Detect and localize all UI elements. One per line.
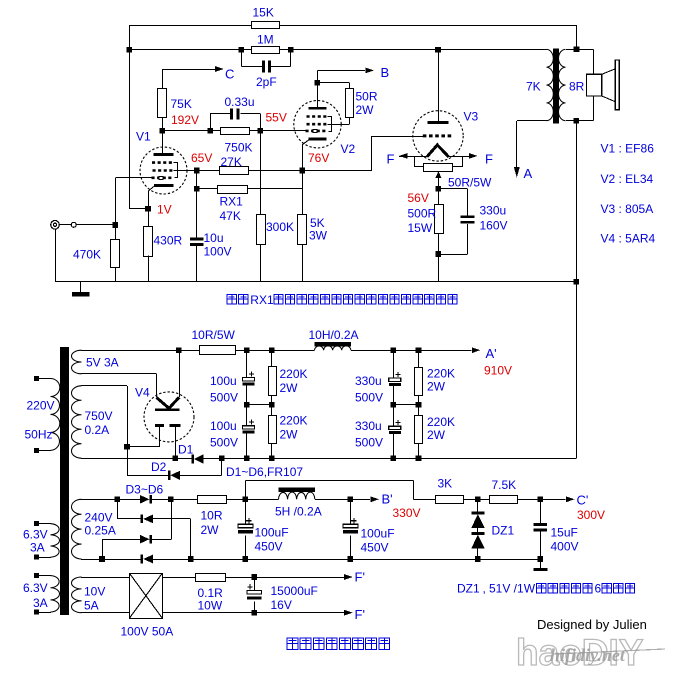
tube V2 grid3 [307,115,328,118]
wire 7.5K to C-prime [518,499,566,501]
svg-text:220K: 220K [280,414,308,428]
tube V1 cathode [154,184,174,187]
resistor 10R/5W [200,346,236,355]
node 2pF-right junction [288,47,294,53]
svg-text:8R: 8R [569,80,585,94]
tube V2 g3-g1 tie [328,117,332,132]
wire 5K to ground [302,244,304,282]
transformer PT 5V 3A winding [72,350,82,374]
svg-text:220K: 220K [280,367,308,381]
input jack J1 [51,221,60,230]
wire 5K drop [302,171,304,215]
wire res1 link [271,396,273,416]
node V4 filament junction [176,347,182,353]
svg-text:2W: 2W [201,523,220,537]
svg-text:6.3V: 6.3V [23,581,48,595]
svg-text:B': B' [382,492,393,507]
wire res2 link [418,396,420,416]
wire to F-prime top [225,577,344,579]
node res2 mid junction [416,402,422,408]
wire filament F right [449,156,471,158]
node secondary top junction [574,47,580,53]
wire caps-res link1 [247,404,272,406]
wire bias bottom rail [153,559,541,561]
wire feedback left vertical [129,25,131,209]
wire 430R to ground [148,256,150,282]
svg-text:1M: 1M [257,33,274,47]
transformer PT core [60,347,69,615]
wire test point C [162,69,164,89]
svg-text:75K: 75K [171,97,192,111]
node bias rail cap2 [348,556,354,562]
wire bridge row1 right [152,499,198,501]
svg-text:V2: V2 [341,142,356,156]
rectifier bridge 100V 50A [130,574,163,619]
diode D3 [140,495,150,504]
node V3 plate junction [435,47,441,53]
resistor 750K [221,128,250,135]
wire DZ1 bottom lead [477,548,479,559]
svg-text:15uF: 15uF [551,526,578,540]
resistor 3K [436,496,464,504]
svg-text:51V /1W: 51V /1W [489,582,536,596]
wire cathode rail to V3 grid [302,170,372,172]
tube V2 plate [309,107,327,110]
tube V2 grid2 [307,123,328,126]
node 1M-left junction [126,47,132,53]
wire bias rail to B-prime [315,499,370,501]
wire regulator feed [245,480,247,499]
tube V4 5AR4 envelope [144,392,194,442]
wire main ground rail [55,281,576,283]
svg-text:3A: 3A [30,541,45,555]
wire test point B [317,70,319,82]
node bridge row4 left [99,556,105,562]
svg-text:50Hz: 50Hz [25,428,53,442]
svg-text:100uF: 100uF [255,526,289,540]
wire 330u branch [438,188,467,190]
terminal 6.3V-2 bottom [34,610,39,615]
wire 470K to ground [115,268,117,282]
note mono design (chinese) [287,638,298,649]
tube V4 right plate [170,424,181,427]
tube V4 cathode bar [155,409,180,412]
terminal 6.3V-2 top [34,573,39,578]
node 15uF top junction [538,497,544,503]
wire to 500R [438,189,440,205]
svg-text:RX1: RX1 [250,293,274,307]
svg-text:330u: 330u [355,374,382,388]
svg-text:D1~D6,FR107: D1~D6,FR107 [226,465,303,479]
tube V4 filament [157,397,180,408]
svg-text:A: A [524,166,533,181]
transformer PT 220V primary [51,379,60,451]
wire 240V bottom rail [81,559,141,561]
resistor 5K 3W [298,215,307,245]
svg-text:A': A' [486,346,497,361]
svg-text:100V 50A: 100V 50A [121,625,174,639]
resistor 220K 2W third [418,350,420,367]
svg-text:5A: 5A [84,599,99,613]
terminal 220V bottom [34,448,39,453]
tube V2 EL34 envelope [294,101,341,148]
node neg rail cap1 [244,455,250,461]
capacitor 100u 500V upper [246,350,248,377]
svg-text:D1: D1 [178,443,194,457]
zener DZ1 lower [471,532,484,535]
wire cathode to 430R [148,209,150,226]
wire 240V top to bridge [81,499,140,501]
wire bridge to 0.1R [162,577,196,579]
svg-text:192V: 192V [171,113,199,127]
svg-text:5V 3A: 5V 3A [86,356,119,370]
wire bridge row2 right [153,518,191,520]
svg-text:500V: 500V [355,436,383,450]
wire zener link [477,528,479,532]
wire 10V top lead [81,577,129,579]
node V4 right plate junction [172,455,178,461]
wire RX1 rail [197,188,218,190]
node res1 mid junction [269,402,275,408]
transformer PT 6.3V winding 2 [51,576,60,612]
svg-text:27K: 27K [221,155,242,169]
wire terminal to grid node [76,224,115,226]
wire filament F left [399,156,427,158]
wire 750V top to plate node [81,385,127,387]
wire 15K feedback rail top [129,25,251,27]
capacitor 330u 160V [461,215,475,218]
svg-text:B: B [381,65,390,80]
node 15000uF top junction [251,574,257,580]
ground symbol bias rail [540,559,542,568]
node X junction [219,455,225,461]
node cap2 mid junction [391,402,397,408]
wire res2 bottom [418,444,420,459]
node cap1 top junction [244,347,250,353]
capacitor 330u 500V lower [389,426,401,429]
tube V2 grid1 [306,130,328,133]
wire plate to 50R [317,82,349,84]
svg-text:F': F' [355,607,365,622]
svg-text:2W: 2W [356,103,375,117]
resistor 50R/5W humdinger [424,164,453,172]
svg-text:1V: 1V [157,203,172,217]
wire caps-res link2 [393,404,418,406]
wire 2pF branch [241,50,243,67]
wire 750V bottom to D1 [81,458,192,460]
svg-text:Designed by Julien: Designed by Julien [537,617,647,632]
transformer PT 6.3V winding 1 [51,524,60,557]
wire bridge row2 left [117,518,141,520]
svg-text:450V: 450V [255,540,283,554]
node cap2 top junction [391,347,397,353]
svg-text:220K: 220K [427,367,455,381]
transformer PT 750V winding [71,386,81,458]
terminal 220V top [34,376,39,381]
svg-text:470K: 470K [73,248,101,262]
wire input node vertical [115,178,117,239]
diode D5 [140,535,150,544]
wire secondary top [566,49,594,51]
node 750K-left junction [207,128,213,134]
wire 1M rail [129,49,251,51]
svg-text:6.3V: 6.3V [23,528,48,542]
resistor 1M [252,47,280,54]
terminal open circle [71,222,76,227]
node neg rail cap2 [391,455,397,461]
node bridge row1 left [114,497,120,503]
wire negative return rail [222,458,577,460]
svg-text:500V: 500V [210,436,238,450]
svg-text:2W: 2W [427,428,446,442]
wire V1 g2 out [174,170,197,172]
zener DZ1 upper [471,512,484,515]
wire feedback to cathode [129,208,148,210]
wire 27K rail [197,170,219,172]
tube V1 g3-g1 tie [174,163,178,178]
transformer PT 10V 5A winding [71,577,81,613]
wire 75K to plate node [162,118,164,131]
svg-text:10H/0.2A: 10H/0.2A [309,328,359,342]
resistor 430R [144,227,153,257]
svg-text:160V: 160V [480,219,508,233]
svg-text:3A: 3A [33,596,48,610]
wire B+ rail mid [236,350,315,352]
wire V1 plate lead [162,131,164,154]
tube V2 cathode [309,138,327,141]
svg-text:76V: 76V [308,151,329,165]
svg-text:65V: 65V [191,151,212,165]
svg-text:400V: 400V [551,540,579,554]
resistor RX1 47K [218,186,248,194]
svg-text:10u: 10u [204,231,224,245]
svg-text:V1: V1 [136,130,151,144]
svg-text:D2: D2 [151,460,167,474]
svg-text:,: , [483,582,486,596]
svg-text:RX1: RX1 [220,195,244,209]
wire V4 left plate lead [159,427,161,447]
wire bridge left vertical [117,499,119,519]
resistor 300K [257,215,266,245]
svg-text:15W: 15W [408,221,433,235]
node V2 plate junction [315,80,321,86]
svg-text:430R: 430R [154,234,183,248]
resistor 220K 2W second [269,416,277,444]
svg-text:100V: 100V [204,245,232,259]
svg-text:10W: 10W [198,599,223,613]
svg-text:100u: 100u [210,374,237,388]
svg-text:V3 : 805A: V3 : 805A [601,202,654,216]
wire V4 right filament lead [179,350,181,397]
wire 10V bottom rail [81,612,129,614]
wire 500R bottom [438,234,440,255]
node 500R bottom junction [436,251,442,257]
wire humdinger wiper [438,172,440,189]
tube V1 grid1 [152,177,174,180]
node cap1 mid junction [244,402,250,408]
node cathode junction [145,206,151,212]
wire humdinger right wing [453,157,463,167]
svg-text:500V: 500V [210,391,238,405]
svg-text:300V: 300V [577,508,605,522]
svg-text:hifidiy.net: hifidiy.net [550,645,626,665]
svg-text:C: C [225,67,234,82]
tube V1 grid2 [153,169,174,172]
node res2 top junction [416,347,422,353]
svg-text:DZ1: DZ1 [457,582,480,596]
choke 10H/0.2A [315,342,351,347]
capacitor 100uF 450V second [350,499,352,524]
svg-text:220K: 220K [427,415,455,429]
svg-text:300K: 300K [266,220,294,234]
wire D1 to node X [204,458,222,460]
svg-text:0.33u: 0.33u [225,95,255,109]
wire cathode node to ground [438,254,440,282]
wire bias cap2 bottom [350,536,352,559]
terminal 6.3V-1 top [34,521,39,526]
svg-text:10V: 10V [84,585,105,599]
svg-text:2W: 2W [280,381,299,395]
wire V2 plate lead [317,83,319,107]
transformer OPT secondary 8R [558,49,565,120]
svg-text:500V: 500V [355,391,383,405]
svg-text:DZ1: DZ1 [492,524,515,538]
svg-text:56V: 56V [408,191,429,205]
resistor 220K 2W first [271,350,273,367]
svg-text:10R: 10R [201,509,223,523]
wire V4 right plate lead [175,427,177,458]
svg-text:220V: 220V [27,399,55,413]
node DZ1 top junction [475,497,481,503]
resistor 500R 15W [435,205,444,234]
node secondary bottom junction [574,118,580,124]
svg-text:2W: 2W [280,428,299,442]
wire V1 cathode lead [148,186,154,191]
wire secondary to ground rail [576,121,578,459]
svg-text:500R: 500R [408,207,437,221]
svg-text:V4: V4 [135,386,150,400]
wire V2 cathode lead [303,140,309,145]
resistor 7.5K [490,496,518,504]
wire g2 vertical [196,171,198,238]
resistor 15K [252,22,280,29]
wire V3 plate lead [438,50,440,121]
note adjust RX1 (chinese) [227,295,236,305]
svg-text:F': F' [355,570,365,585]
node neg rail res1 [269,455,275,461]
svg-text:330u: 330u [355,419,382,433]
svg-text:15000uF: 15000uF [271,584,318,598]
wire V1 g1 to input node [115,177,151,179]
svg-text:910V: 910V [484,364,512,378]
tube V4 left plate [155,424,164,427]
capacitor 0.33u [210,114,212,131]
capacitor 10u 100V [190,238,204,241]
svg-text:F: F [485,152,493,167]
tube V3 filament [427,145,449,157]
capacitor 15000uF 16V [254,577,256,591]
wire cap2 bottom [393,434,395,458]
capacitor 2pF [262,61,265,73]
wire 15000uF bottom lead [254,602,256,613]
svg-text:50R: 50R [356,90,378,104]
svg-text:V4 : 5AR4: V4 : 5AR4 [601,231,656,245]
choke 5H/0.2A [279,487,315,492]
node 750K-right junction [258,128,264,134]
tube V3 plate [428,121,449,124]
wire humdinger left wing [415,157,424,167]
svg-text:V3: V3 [464,110,479,124]
transformer PT 240V winding [71,499,81,559]
transformer OPT core [553,49,559,124]
resistor 0.1R 10W [196,574,226,582]
svg-text:100u: 100u [210,419,237,433]
tube V1 EF86 envelope [140,147,187,194]
wire jack ground drop [55,229,57,282]
wire secondary bottom [566,120,594,122]
capacitor 330u 500V upper [393,350,395,378]
tube V1 grid3 [152,161,174,164]
svg-text:0.2A: 0.2A [85,423,110,437]
node secondary ground junction [574,279,580,285]
diode D6 [141,555,144,564]
wire B+ rail from 5V winding [81,350,200,352]
diode D2 [168,471,171,480]
wire plate node to V4 [127,446,160,448]
svg-text:450V: 450V [361,541,389,555]
svg-text:750V: 750V [85,409,113,423]
tube V3 grid [423,134,454,137]
node input junction [113,222,119,228]
wire bias cap1 bottom [245,536,247,559]
svg-text:D3~D6: D3~D6 [126,483,164,497]
diode D1 [192,454,195,463]
transformer OPT primary 7K [547,49,554,120]
svg-text:330u: 330u [480,204,507,218]
resistor 470K [111,240,120,268]
wire 300K drop [260,131,262,215]
capacitor 100uF 450V first [245,499,247,524]
wire D2 branch down [127,447,129,475]
svg-text:100uF: 100uF [361,527,395,541]
resistor 50R 2W [346,89,354,118]
resistor 75K [158,89,167,118]
node F-prime rail junction [251,610,257,616]
wire 50R to g2 [349,118,351,125]
wire cap2 middle [393,386,395,426]
wire DZ1 top lead [477,499,479,511]
resistor 10R 2W [198,496,227,504]
speaker LS [586,74,601,96]
svg-text:7.5K: 7.5K [492,478,517,492]
svg-text:2W: 2W [427,380,446,394]
node 56V junction [436,186,442,192]
node res1 top junction [269,347,275,353]
wire 15uF bottom lead [540,532,542,559]
capacitor 100u 500V lower [242,426,254,429]
ground symbol [80,282,82,292]
node 2pF-left junction [239,47,245,53]
wire 3K to 7.5K [463,499,489,501]
svg-text:330V: 330V [393,506,421,520]
diode D4 [141,515,144,524]
svg-text:3W: 3W [309,229,328,243]
node bias rail 15uF [538,556,544,562]
wire jack to open terminal [59,224,71,226]
svg-text:2pF: 2pF [256,75,277,89]
node bias cap2 junction [348,497,354,503]
wire 5V bottom to V4 left filament [81,373,157,375]
